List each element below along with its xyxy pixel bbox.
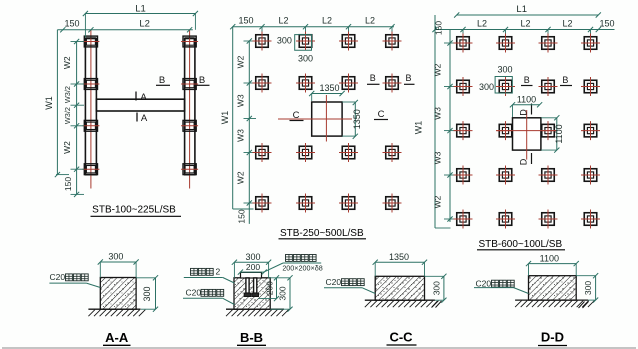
svg-text:L1: L1 xyxy=(135,4,146,15)
middle plan plinth red centerline vertical xyxy=(325,95,327,142)
middle plan anchor bolt r4c2 xyxy=(296,194,315,213)
svg-text:2: 2 xyxy=(216,267,221,277)
right plan anchor bolt r5c3 xyxy=(539,210,558,229)
middle plan anchor bolt r4c3 xyxy=(339,194,358,213)
svg-text:L2: L2 xyxy=(562,19,572,29)
svg-text:C20: C20 xyxy=(476,278,492,288)
right plan anchor bolt r1c2 xyxy=(496,34,515,53)
middle plan anchor bolt r3c4 xyxy=(383,143,402,162)
left plan: red centerline right column xyxy=(189,30,191,189)
svg-text:B: B xyxy=(524,75,530,85)
svg-text:W3: W3 xyxy=(433,107,443,120)
section C-C concrete block xyxy=(375,276,424,300)
section D-D right dimension 300 xyxy=(595,276,597,300)
svg-text:1100: 1100 xyxy=(554,124,564,143)
svg-text:W2: W2 xyxy=(433,63,443,76)
middle plan anchor bolt r3c1 xyxy=(253,143,272,162)
right plan anchor bolt r1c3 xyxy=(539,34,558,53)
svg-text:150: 150 xyxy=(236,209,246,223)
svg-text:W2: W2 xyxy=(433,195,443,208)
extension line column xyxy=(348,27,350,34)
extension line column right plan xyxy=(462,30,464,38)
middle plan anchor bolt r4c4 xyxy=(383,194,402,213)
left plan: right bar outline xyxy=(185,39,195,175)
right plan W1 dimension line xyxy=(434,15,436,228)
svg-text:A: A xyxy=(140,92,147,103)
extension line L1 right xyxy=(194,14,196,30)
middle plan anchor bolt r1c1 xyxy=(253,32,272,51)
section C-C ground hatching xyxy=(365,301,439,308)
dimension 1100 right of right plinth xyxy=(556,118,558,150)
section B-B right outer dimension 300 xyxy=(289,278,291,309)
middle plan anchor bolt r2c2 xyxy=(296,74,315,93)
right plan anchor bolt r4c1 xyxy=(454,166,473,185)
right plan L2 dimension line xyxy=(435,29,615,31)
section A-A ground hatching xyxy=(88,310,145,317)
left plan anchor bolt row1 right xyxy=(181,36,198,47)
svg-text:L2: L2 xyxy=(139,19,150,30)
left plan anchor bolt row1 left xyxy=(82,36,99,47)
svg-text:1350: 1350 xyxy=(319,83,339,93)
left plan anchor bolt row2 right xyxy=(181,79,198,90)
dimension 300 bracket at bolt r1c2 xyxy=(295,35,312,51)
section A-A concrete block xyxy=(100,278,136,310)
svg-text:C: C xyxy=(293,110,300,121)
dimension W1 line left plan xyxy=(56,30,58,175)
middle plan anchor bolt r2c3 xyxy=(339,74,358,93)
section B-B ground hatching xyxy=(226,310,289,317)
middle plan top dimension line xyxy=(233,26,394,28)
left plan vertical dimension chain line xyxy=(76,42,78,195)
section D-D ground line xyxy=(515,299,588,301)
middle plan left dimension chain line xyxy=(248,41,250,224)
svg-text:W3/2: W3/2 xyxy=(63,107,72,124)
right plan anchor bolt r4c3 xyxy=(539,166,558,185)
svg-text:150: 150 xyxy=(63,177,73,191)
bottom scan artifact line xyxy=(2,347,636,349)
left plan anchor bolt row3 right xyxy=(181,120,198,131)
dimension 1350 right of plinth xyxy=(354,103,356,137)
right plan anchor bolt r3c2 xyxy=(496,121,515,140)
middle plan anchor bolt r3c3 xyxy=(339,143,358,162)
dimension L1 line xyxy=(85,13,196,15)
extension line column xyxy=(391,27,393,34)
svg-text:L2: L2 xyxy=(520,19,530,29)
svg-text:200: 200 xyxy=(264,281,274,295)
svg-text:300: 300 xyxy=(479,82,494,92)
section mark A lower xyxy=(136,113,138,122)
right plan plinth red centerline horizontal xyxy=(497,130,557,132)
extension line column right plan xyxy=(590,30,592,38)
svg-text:L2: L2 xyxy=(278,16,288,26)
svg-text:D: D xyxy=(519,109,529,116)
right plan anchor bolt r2c1 xyxy=(454,77,473,96)
left plan: left bar outline xyxy=(85,39,96,175)
svg-text:B: B xyxy=(159,75,165,86)
svg-text:150: 150 xyxy=(434,21,444,35)
svg-text:W3: W3 xyxy=(433,151,443,164)
section C-C ground break mark xyxy=(432,301,438,308)
svg-text:L1: L1 xyxy=(516,4,527,15)
svg-text:150: 150 xyxy=(599,19,614,29)
middle plan section C cut red centerline xyxy=(278,118,352,120)
section D-D ground hatching xyxy=(515,301,594,308)
middle plan W1 dimension line xyxy=(232,27,234,209)
svg-text:W2: W2 xyxy=(62,56,72,69)
left plan: middle horizontal bar outline xyxy=(96,99,184,111)
section D-D ground break mark xyxy=(579,302,585,309)
svg-text:W1: W1 xyxy=(44,96,54,110)
svg-text:W3: W3 xyxy=(236,129,246,142)
section B-B leader steel shim plate xyxy=(191,268,214,275)
svg-text:B: B xyxy=(370,73,376,83)
svg-text:C20: C20 xyxy=(326,277,342,287)
middle plan anchor bolt r3c2 xyxy=(296,143,315,162)
svg-text:C-C: C-C xyxy=(389,330,413,345)
svg-text:300: 300 xyxy=(431,281,441,295)
svg-text:150: 150 xyxy=(64,18,79,28)
section C-C ground line xyxy=(365,299,435,301)
svg-text:300: 300 xyxy=(108,252,123,262)
dimension L2/150 line top of left plan xyxy=(57,29,192,31)
left plan view STB-100~225L/SB : H-shaped foundation xyxy=(0,0,1,1)
svg-text:300: 300 xyxy=(277,286,287,300)
right plan anchor bolt r5c1 xyxy=(454,210,473,229)
right plan anchor bolt r2c4 xyxy=(581,77,600,96)
svg-text:C20: C20 xyxy=(186,288,202,298)
section D-D concrete block xyxy=(529,276,577,300)
svg-text:300: 300 xyxy=(497,65,512,75)
svg-text:STB-250~500L/SB: STB-250~500L/SB xyxy=(280,228,364,239)
svg-text:1350: 1350 xyxy=(389,252,409,262)
svg-text:1100: 1100 xyxy=(540,253,559,263)
left plan anchor bolt row4 left xyxy=(82,164,99,175)
right plan anchor bolt r3c3 xyxy=(539,121,558,140)
left plan: red centerline left column xyxy=(90,30,92,189)
svg-text:L2: L2 xyxy=(477,19,487,29)
svg-text:200: 200 xyxy=(246,262,260,272)
section B-B leader embedded plate text xyxy=(286,255,317,262)
svg-text:W2: W2 xyxy=(236,55,246,68)
svg-text:STB-600~100L/SB: STB-600~100L/SB xyxy=(478,239,562,250)
svg-text:1100: 1100 xyxy=(517,95,536,105)
extension line column right plan xyxy=(547,30,549,38)
svg-text:B-B: B-B xyxy=(240,330,263,345)
section B-B concrete block xyxy=(234,278,270,309)
svg-text:L2: L2 xyxy=(322,16,332,26)
right plan anchor bolt r4c4 xyxy=(581,166,600,185)
left plan anchor bolt row3 left xyxy=(82,120,99,131)
right plan central plinth square xyxy=(513,118,541,150)
svg-text:W1: W1 xyxy=(220,111,230,125)
right plan left dimension chain line xyxy=(449,30,451,223)
middle plan anchor bolt r4c1 xyxy=(253,194,272,213)
right plan L1 dimension line xyxy=(457,14,599,16)
svg-text:W1: W1 xyxy=(414,121,424,135)
section A-A right dimension 300 xyxy=(155,278,157,309)
svg-text:W3: W3 xyxy=(236,94,246,107)
right plan anchor bolt r1c4 xyxy=(581,34,600,53)
extension line column xyxy=(305,27,307,34)
middle plan anchor bolt r2c1 xyxy=(253,74,272,93)
svg-text:150: 150 xyxy=(238,16,253,26)
svg-text:STB-100~225L/SB: STB-100~225L/SB xyxy=(92,205,176,216)
extension line L1 left xyxy=(84,14,86,38)
svg-text:D-D: D-D xyxy=(541,330,564,345)
svg-text:300: 300 xyxy=(142,286,152,301)
section C-C right dimension 300 xyxy=(443,276,445,300)
right plan anchor bolt r1c1 xyxy=(454,34,473,53)
svg-text:A-A: A-A xyxy=(105,330,129,345)
middle plan anchor bolt r2c4 xyxy=(383,74,402,93)
middle plan anchor bolt r1c3 xyxy=(339,32,358,51)
right plan anchor bolt r3c1 xyxy=(454,121,473,140)
svg-text:300: 300 xyxy=(298,54,313,64)
left plan anchor bolt row2 left xyxy=(82,79,99,90)
right plan anchor bolt r5c2 xyxy=(496,210,515,229)
middle plan anchor bolt r1c4 xyxy=(383,32,402,51)
svg-text:300: 300 xyxy=(245,252,260,262)
section B-B anchor bolt left xyxy=(244,278,251,297)
extension line column xyxy=(261,27,263,34)
svg-text:B: B xyxy=(199,75,205,86)
section B-B anchor bolt right xyxy=(252,278,259,297)
section B-B right inner dimension 200 xyxy=(276,278,278,299)
right plan anchor bolt r2c3 xyxy=(539,77,558,96)
right plan plinth red centerline vertical xyxy=(526,110,528,160)
dimension 300 bracket at right plan bolt r2c2 xyxy=(495,77,512,94)
svg-text:A: A xyxy=(141,113,148,124)
svg-text:300: 300 xyxy=(277,36,292,46)
section B-B ground line xyxy=(226,308,284,310)
svg-text:200×200×δ8: 200×200×δ8 xyxy=(282,264,322,273)
section A-A ground line xyxy=(88,308,140,310)
svg-text:C: C xyxy=(378,109,385,120)
right plan anchor bolt r2c2 xyxy=(496,77,515,96)
right plan anchor bolt r5c4 xyxy=(581,210,600,229)
svg-text:1350: 1350 xyxy=(352,109,362,129)
section B-B embedded steel plate xyxy=(241,272,262,278)
svg-text:B: B xyxy=(562,75,568,85)
middle plan anchor bolt r1c2 xyxy=(296,32,315,51)
svg-text:B: B xyxy=(405,73,411,83)
right plan anchor bolt r4c2 xyxy=(496,166,515,185)
svg-text:D: D xyxy=(519,158,529,165)
svg-text:W3/2: W3/2 xyxy=(63,86,72,103)
svg-text:W2: W2 xyxy=(236,171,246,184)
left plan anchor bolt row4 right xyxy=(181,164,198,175)
svg-text:W2: W2 xyxy=(62,141,72,154)
right plan anchor bolt r3c4 xyxy=(581,121,600,140)
middle plan central plinth square xyxy=(312,102,342,136)
svg-text:300: 300 xyxy=(583,281,593,295)
extension line column right plan xyxy=(505,30,507,38)
svg-text:L2: L2 xyxy=(365,16,375,26)
section mark A upper xyxy=(135,92,137,101)
svg-text:C20: C20 xyxy=(50,272,66,282)
